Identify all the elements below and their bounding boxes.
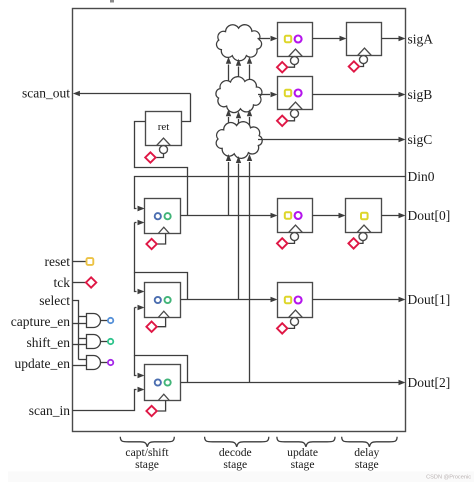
label tck <box>54 275 71 290</box>
reset marker in U2 <box>285 90 291 96</box>
svg-text:stage: stage <box>135 458 159 471</box>
wire decode feed B (Dout1 up to cloud K3) <box>238 164 240 300</box>
wire K3 to K2 b <box>238 119 240 130</box>
clock bubble U1 <box>291 57 299 65</box>
svg-text:update: update <box>287 446 318 459</box>
wire capture_en <box>73 323 87 325</box>
reset marker in Z2 <box>361 213 368 220</box>
update clock ring <box>108 360 113 365</box>
wire ret output riser <box>182 94 191 122</box>
update clock ring in U4 <box>295 297 302 304</box>
clock bubble ret <box>160 146 168 154</box>
svg-text:sigC: sigC <box>408 132 433 147</box>
clock wedge Z2 <box>357 225 371 232</box>
capture FF S2 <box>145 283 181 318</box>
svg-text:shift_en: shift_en <box>27 335 71 350</box>
reset marker symbol <box>87 258 94 265</box>
arrow into K1 c <box>247 57 252 64</box>
label scan_in <box>29 403 70 418</box>
label sigC <box>408 132 433 147</box>
svg-text:ret: ret <box>158 121 170 133</box>
arrow into K2 a <box>226 109 231 116</box>
label Dout1 <box>408 292 451 307</box>
clock elbow S3 <box>157 401 166 412</box>
wire S3 out loop (to S2 scan-in and S3 data-in) <box>135 308 188 383</box>
wire select tap to G1 <box>79 316 87 318</box>
wire S1 scan-in stub <box>135 220 145 225</box>
wire U4 to Dout1 port <box>313 297 406 302</box>
wire S2 out to update FF U4 <box>181 297 278 302</box>
label delay stage <box>354 446 379 471</box>
clock wedge ret <box>157 138 171 145</box>
arrow into K2 b <box>236 111 241 118</box>
label reset <box>45 254 71 269</box>
svg-text:decode: decode <box>219 446 252 459</box>
reset marker in U4 <box>285 297 291 303</box>
label update stage <box>287 446 318 471</box>
delay FF Z1 (sigA) <box>347 23 382 56</box>
brace capt/shift stage <box>120 437 174 447</box>
clock elbow ret <box>156 154 164 158</box>
svg-text:tck: tck <box>54 275 71 290</box>
tck diamond ret <box>145 152 155 162</box>
svg-text:CSDN @Procenic: CSDN @Procenic <box>426 474 471 480</box>
label update_en <box>15 356 71 371</box>
wire S2 out loop (to S1 scan-in and S2 data-in) <box>135 223 188 300</box>
shift clock ring <box>108 339 113 344</box>
svg-text:scan_out: scan_out <box>22 86 70 101</box>
footer strip <box>8 472 474 482</box>
clock bubble Z2 <box>359 233 367 241</box>
wire update_en <box>73 365 87 367</box>
wire decode feed A (Dout0 up to cloud K3) <box>228 162 230 216</box>
wire shift_en <box>73 344 87 346</box>
wire U3 to delay FF Z2 <box>313 213 346 218</box>
clock elbow U3 <box>288 241 295 244</box>
tck diamond U3 <box>277 238 287 248</box>
wire Z2 to Dout0 port <box>382 213 406 218</box>
clock elbow U2 <box>288 118 295 121</box>
clock wedge S1 <box>158 227 169 233</box>
tck diamond U4 <box>277 323 287 333</box>
wire S1 out to update FF U3 <box>181 213 278 218</box>
capture FF S1 <box>145 199 181 234</box>
label sigA <box>408 31 434 46</box>
clock wedge U3 <box>289 225 303 232</box>
wire G3 output stub <box>101 362 108 364</box>
update FF U4 (Dout1) <box>278 283 313 318</box>
label Dout2 <box>408 375 451 390</box>
wire S1 data-in arrow <box>138 206 145 211</box>
svg-text:sigB: sigB <box>408 87 433 102</box>
svg-text:capt/shift: capt/shift <box>125 446 169 459</box>
capture clock ring <box>108 318 113 323</box>
tck diamond S1 <box>146 239 156 249</box>
wire cloud K1 to update FF U1 <box>258 36 278 41</box>
svg-text:stage: stage <box>223 458 247 471</box>
label Dout0 <box>408 208 451 223</box>
label ret <box>158 121 170 133</box>
wire S2 scan-in stub <box>135 305 145 310</box>
label shift_en <box>27 335 71 350</box>
arrow into K2 c <box>247 109 252 116</box>
capture ring in S1 <box>155 213 161 219</box>
brace update stage <box>277 437 335 447</box>
wire U2 to sigB port <box>313 92 406 97</box>
wire K2 to K1 b <box>238 67 240 86</box>
outer boundary box <box>73 9 406 432</box>
arrow into K3 b <box>236 156 241 163</box>
ret FF box <box>146 112 182 146</box>
arrow into K1 b <box>236 59 241 66</box>
svg-text:reset: reset <box>45 254 71 269</box>
reset marker in U1 <box>285 36 291 42</box>
wire scan_out from ret FF <box>73 91 191 96</box>
tck diamond S2 <box>146 322 156 332</box>
clock wedge U1 <box>289 49 303 56</box>
shift ring in S3 <box>165 379 171 385</box>
tck diamond S3 <box>146 406 156 416</box>
clock bubble U4 <box>291 318 299 326</box>
capture ring in S2 <box>155 297 161 303</box>
label capture_en <box>11 314 70 329</box>
wire K2 to K1 c <box>249 65 251 84</box>
svg-text:stage: stage <box>291 458 315 471</box>
reset marker in U3 <box>285 212 291 218</box>
clock wedge S2 <box>158 311 169 317</box>
clock wedge U2 <box>289 102 303 109</box>
clock elbow U1 <box>288 65 295 68</box>
clock elbow S1 <box>157 234 166 245</box>
wire Din0 from right port to FF S1 data input <box>135 177 406 212</box>
svg-text:sigA: sigA <box>408 31 434 46</box>
wire G2 output stub <box>101 341 108 343</box>
wire reset <box>73 261 87 263</box>
update clock ring in U2 <box>295 90 302 97</box>
wire cloud K2 to update FF U2 <box>258 92 278 97</box>
svg-text:select: select <box>39 293 70 308</box>
tck diamond U2 <box>277 116 287 126</box>
capture FF S3 <box>145 365 181 401</box>
update FF U3 (Dout0) <box>278 199 313 233</box>
wire select tap to G2 <box>79 338 87 340</box>
clock elbow U4 <box>288 326 295 329</box>
wire U1 to delay FF Z1 <box>313 36 347 41</box>
update FF U2 (sigB) <box>278 77 313 110</box>
wire K3 to K2 c <box>249 117 251 128</box>
svg-text:Dout[1]: Dout[1] <box>408 292 451 307</box>
AND gate G3 (update) <box>87 356 101 370</box>
clock bubble Z1 <box>360 56 368 64</box>
svg-text:Dout[0]: Dout[0] <box>408 208 451 223</box>
title remnant dot <box>110 0 114 3</box>
label capt/shift stage <box>125 446 169 471</box>
label select <box>39 293 70 308</box>
shift ring in S1 <box>165 213 171 219</box>
svg-text:scan_in: scan_in <box>29 403 70 418</box>
svg-text:delay: delay <box>354 446 379 459</box>
clock wedge Z1 <box>358 48 372 55</box>
wire select tap to G3 <box>79 359 87 361</box>
AND gate G1 (capture) <box>87 314 101 328</box>
clock elbow Z1 <box>359 64 363 67</box>
delay FF Z2 (Dout0) <box>346 199 382 233</box>
clock wedge U4 <box>289 310 303 317</box>
update FF U1 (sigA) <box>278 23 313 57</box>
tck diamond Z1 <box>349 61 359 71</box>
wire K3 to K2 a <box>228 117 230 128</box>
decode cloud K2 <box>216 77 262 113</box>
tck diamond symbol <box>86 277 96 287</box>
arrow into K3 a <box>226 154 231 161</box>
svg-text:Dout[2]: Dout[2] <box>408 375 451 390</box>
clock bubble U2 <box>291 110 299 118</box>
wire K2 to K1 a <box>228 65 230 84</box>
decode cloud K3 <box>216 122 262 159</box>
wire select trunk <box>73 301 79 360</box>
clock bubble U3 <box>291 233 299 241</box>
label Din0 <box>408 169 435 184</box>
svg-text:capture_en: capture_en <box>11 314 70 329</box>
arrow into K3 c <box>247 154 252 161</box>
shift ring in S2 <box>165 297 171 303</box>
wire G1 output stub <box>101 320 108 322</box>
watermark <box>426 474 471 480</box>
clock elbow Z2 <box>359 241 363 244</box>
wire decode feed C (Dout2 up to cloud K3) <box>249 162 251 383</box>
svg-text:stage: stage <box>355 458 379 471</box>
brace delay stage <box>342 437 397 447</box>
capture ring in S3 <box>155 379 161 385</box>
wire scan_in <box>73 387 145 411</box>
tck diamond Z2 <box>348 238 358 248</box>
update clock ring in U1 <box>295 36 302 43</box>
wire tck <box>73 282 87 284</box>
decode cloud K1 <box>217 25 262 61</box>
label scan_out <box>22 86 70 101</box>
label decode stage <box>219 446 252 471</box>
AND gate G2 (shift) <box>87 335 101 349</box>
wire FF S1 out to ret input <box>135 122 188 216</box>
wire S3 out to Dout2 port <box>181 380 406 385</box>
svg-text:update_en: update_en <box>15 356 71 371</box>
tck diamond U1 <box>277 62 287 72</box>
brace decode stage <box>205 437 269 447</box>
svg-text:Din0: Din0 <box>408 169 435 184</box>
update clock ring in U3 <box>295 212 302 219</box>
clock elbow S2 <box>157 318 166 327</box>
clock wedge S3 <box>158 394 169 400</box>
label sigB <box>408 87 433 102</box>
arrow into K1 a <box>226 57 231 64</box>
wire Z1 to sigA port <box>382 36 406 41</box>
wire cloud K3 to sigC port <box>258 137 406 142</box>
